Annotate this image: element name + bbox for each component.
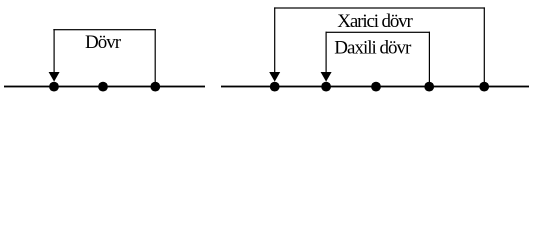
dot 4 right — [424, 82, 434, 92]
dot 1 left — [49, 82, 59, 92]
bracket Dövr: arrowhead down — [49, 72, 60, 82]
bracket Dövr: top line — [53, 29, 156, 30]
bracket Xarici dövr: arrowhead down — [269, 72, 280, 82]
bracket Daxili dövr: top line — [326, 32, 431, 33]
svg-text:Xarici dövr: Xarici dövr — [337, 11, 413, 32]
bracket Dövr: right vertical wire — [155, 29, 156, 83]
svg-text:Daxili dövr: Daxili dövr — [334, 37, 412, 58]
bracket Daxili dövr: right vertical wire — [429, 32, 430, 83]
dot 1 right — [270, 82, 280, 92]
dot 3 left — [150, 82, 160, 92]
bracket Xarici dövr: right vertical wire — [484, 7, 485, 82]
bracket Dövr: left vertical wire — [54, 29, 55, 73]
baseline left segment — [4, 86, 205, 88]
dot 2 left — [98, 82, 108, 92]
svg-text:Dövr: Dövr — [85, 32, 122, 53]
bracket Xarici dövr: left vertical wire — [274, 7, 275, 72]
baseline right segment — [221, 86, 529, 88]
bracket Daxili dövr: arrowhead down — [321, 72, 332, 82]
bracket Daxili dövr: left vertical wire — [326, 32, 327, 73]
dot 2 right — [321, 82, 331, 92]
dot 5 right — [479, 82, 489, 92]
dot 3 right — [371, 82, 381, 92]
bracket Xarici dövr: top line — [274, 7, 485, 8]
